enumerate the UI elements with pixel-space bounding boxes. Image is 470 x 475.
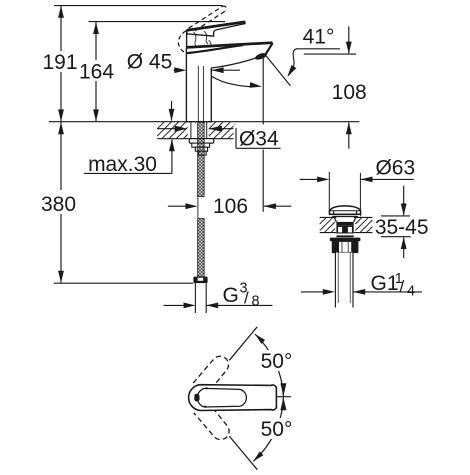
hose end ferrule: [193, 277, 207, 284]
cartridge section squiggles: [194, 32, 198, 48]
lever handle (closed position): [187, 22, 245, 36]
svg-text:/: /: [244, 289, 249, 308]
dimension line 164 vertical: [95, 22, 97, 122]
dimension line 191/380 vertical: [60, 6, 62, 283]
spout tip and aerator: [264, 43, 273, 57]
svg-text:Ø63: Ø63: [375, 157, 415, 180]
pop-up waste locknut: [332, 241, 357, 252]
svg-text:G: G: [223, 284, 239, 307]
svg-text:/: /: [400, 277, 405, 296]
dimension line 106: [168, 205, 186, 207]
svg-text:50°: 50°: [261, 418, 293, 441]
pop-up waste tailpipe: [335, 253, 353, 308]
spout underside: [211, 58, 256, 68]
handle centerline: [277, 396, 291, 398]
svg-text:Ø 45: Ø 45: [127, 51, 173, 74]
label diameter 34 boxed: [234, 125, 283, 150]
flexible supply hose braided: [198, 122, 204, 196]
faucet shank walls: [190, 122, 192, 139]
countertop hatched cross-section: [157, 138, 235, 140]
handle grip inner outline: [197, 388, 246, 407]
dimension line G3/8: [164, 304, 185, 306]
svg-text:8: 8: [252, 294, 260, 310]
svg-text:35-45: 35-45: [375, 216, 429, 239]
label 380: [40, 190, 78, 214]
spout outlet extension line: [262, 57, 264, 212]
fastening nut steps: [192, 143, 210, 147]
label 191: [44, 51, 77, 72]
svg-text:50°: 50°: [261, 350, 293, 373]
svg-text:Ø34: Ø34: [239, 127, 279, 150]
dimension line diameter 45: [174, 69, 179, 71]
label 164: [79, 60, 114, 81]
svg-text:164: 164: [79, 61, 114, 84]
label 50 degrees upper: [258, 350, 295, 371]
label 50 degrees lower: [258, 418, 295, 439]
svg-text:106: 106: [213, 195, 248, 218]
reference line top (open lever height): [54, 5, 223, 7]
41 degree reference line and arc: [296, 48, 340, 50]
dimension max.30 leader: [171, 101, 173, 121]
svg-text:108: 108: [332, 81, 367, 104]
handle rotated up 50 deg (dashed): [193, 353, 232, 395]
svg-text:191: 191: [42, 51, 77, 74]
svg-text:4: 4: [407, 284, 415, 300]
pop-up waste neck: [334, 216, 337, 222]
mounting washer: [189, 139, 214, 143]
dimension 35-45: [381, 215, 410, 217]
svg-text:41°: 41°: [303, 26, 335, 49]
jet direction arc arrow: [196, 57, 250, 87]
handle top view (solid): [189, 385, 277, 411]
faucet body and spout outline: [186, 48, 211, 122]
handle rotated down 50 deg (dashed): [194, 401, 233, 443]
reference line solid lever height: [89, 21, 226, 23]
pop-up waste counter hatched section: [320, 216, 337, 218]
G3/8 connection tube: [195, 283, 206, 313]
handle swivel rays 50 degrees: [229, 327, 257, 361]
dimension diameter 63: [328, 172, 330, 214]
svg-text:380: 380: [41, 193, 76, 216]
svg-text:max.30: max.30: [88, 153, 157, 176]
dimension line diameter 34: [157, 128, 176, 130]
countertop top surface line: [49, 121, 360, 123]
pop-up waste slots: [336, 225, 353, 233]
spout top edge: [187, 43, 273, 48]
50 degree arc upper: [255, 334, 283, 396]
dimension line 108 vertical: [304, 53, 356, 55]
lever handle raised (dashed): [189, 6, 224, 28]
spout face extension diagonal: [266, 55, 291, 86]
reference line hose end (380 bottom): [54, 282, 194, 284]
handle indicator mark: [194, 394, 199, 402]
50 degree arc lower: [253, 397, 283, 461]
pop-up waste flange: [330, 238, 361, 242]
dimension G1 1/4: [301, 291, 324, 293]
pop-up waste cap: [330, 206, 361, 214]
